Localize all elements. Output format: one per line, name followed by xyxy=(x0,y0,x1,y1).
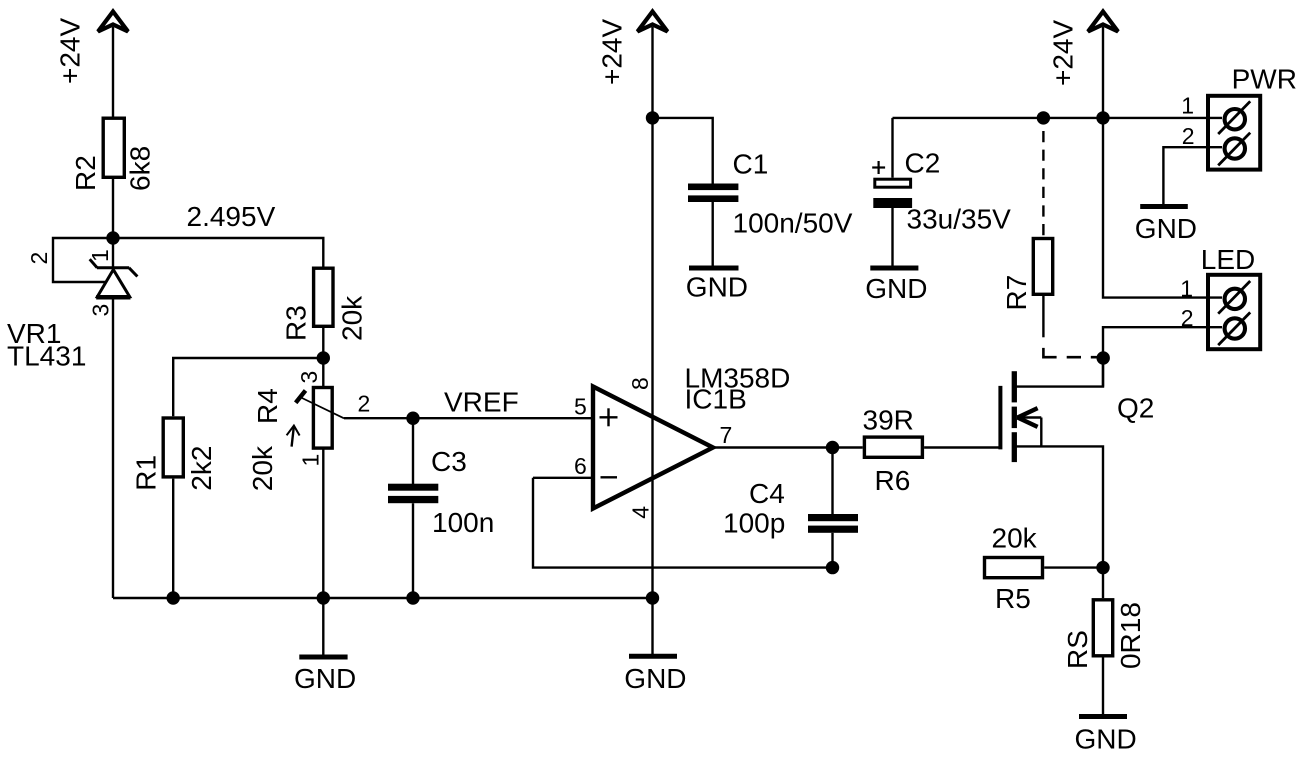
svg-text:100n: 100n xyxy=(432,507,494,538)
junction R4 ground xyxy=(317,591,330,604)
junction VREF xyxy=(406,412,419,425)
svg-text:PWR: PWR xyxy=(1232,64,1297,95)
R4 wiper slash xyxy=(296,391,306,403)
svg-text:20k: 20k xyxy=(992,523,1038,554)
resistor R1 xyxy=(163,418,183,477)
junction node 2.495V xyxy=(106,231,119,244)
potentiometer R4 xyxy=(313,388,332,449)
wire +24V to R2 xyxy=(112,27,114,117)
junction drain / LED2 / R7 xyxy=(1097,351,1110,364)
svg-text:0R18: 0R18 xyxy=(1115,602,1146,669)
svg-text:3: 3 xyxy=(296,371,322,384)
svg-text:+24V: +24V xyxy=(55,18,86,84)
svg-text:Q2: Q2 xyxy=(1117,393,1154,424)
svg-text:R1: R1 xyxy=(130,455,161,491)
wire R7 dashed top xyxy=(1042,131,1044,238)
svg-text:R7: R7 xyxy=(1001,275,1032,311)
junction +24V / C1 xyxy=(646,111,659,124)
svg-text:8: 8 xyxy=(627,377,653,390)
supply symbol +24V (middle) xyxy=(638,12,668,32)
wire R2 to node 2.495V xyxy=(112,179,114,268)
ground rail xyxy=(113,597,653,599)
svg-text:TL431: TL431 xyxy=(7,341,86,372)
svg-text:C2: C2 xyxy=(905,148,941,179)
junction R1 ground xyxy=(167,591,180,604)
svg-text:R2: R2 xyxy=(70,155,101,191)
svg-text:VREF: VREF xyxy=(444,387,519,418)
junction R7 top xyxy=(1037,111,1050,124)
wire R1 to ground rail xyxy=(172,479,174,598)
wire R3 to R4 xyxy=(322,328,324,387)
svg-text:1: 1 xyxy=(1181,93,1194,119)
svg-text:GND: GND xyxy=(294,663,356,694)
svg-text:4: 4 xyxy=(628,506,654,519)
resistor R7 xyxy=(1033,239,1052,295)
resistor R2 xyxy=(103,118,124,177)
resistor RS xyxy=(1093,600,1112,656)
svg-text:3: 3 xyxy=(88,304,114,317)
capacitor C3 xyxy=(388,418,438,598)
wire R7 bottom solid xyxy=(1042,294,1044,337)
svg-text:R5: R5 xyxy=(995,583,1031,614)
svg-text:2: 2 xyxy=(358,391,371,417)
wire op-amp pin6 xyxy=(533,477,593,479)
junction C3 ground xyxy=(406,591,419,604)
wire R6 to Q2 gate xyxy=(924,446,999,448)
ground symbol under R4 xyxy=(294,598,356,694)
svg-text:GND: GND xyxy=(686,272,748,303)
wire LED pin2 to drain node xyxy=(1103,327,1222,386)
svg-text:2k2: 2k2 xyxy=(186,446,217,491)
wire Q2 drain xyxy=(1014,357,1103,387)
svg-text:GND: GND xyxy=(624,663,686,694)
svg-text:R6: R6 xyxy=(875,465,911,496)
ground symbol under C2 xyxy=(865,268,927,304)
wire sense node to RS xyxy=(1102,568,1104,599)
R4 trimmer arrow xyxy=(287,426,300,447)
wire R5 to sense node xyxy=(1044,566,1103,568)
capacitor C2 (polarized) xyxy=(873,118,912,266)
connector LED xyxy=(1208,275,1260,349)
svg-text:39R: 39R xyxy=(863,404,914,435)
svg-text:C4: C4 xyxy=(749,478,785,509)
wire VR1 pin2 loop xyxy=(53,238,113,282)
svg-text:LED: LED xyxy=(1201,244,1255,275)
svg-text:C3: C3 xyxy=(431,446,467,477)
svg-text:6: 6 xyxy=(574,453,587,479)
svg-text:GND: GND xyxy=(865,273,927,304)
capacitor C1 xyxy=(688,184,738,266)
wire Q2 source to sense node xyxy=(1014,446,1103,567)
C2 plus sign xyxy=(872,161,885,174)
R4 wiper line xyxy=(302,398,344,418)
svg-text:2: 2 xyxy=(1182,123,1195,149)
wire R7 dashed bottom to drain node xyxy=(1043,348,1103,357)
svg-text:5: 5 xyxy=(574,394,587,420)
wire feedback pin6 to C4/R5 xyxy=(533,478,833,568)
svg-text:100p: 100p xyxy=(723,507,785,538)
connector PWR xyxy=(1208,96,1260,170)
svg-text:1: 1 xyxy=(298,454,324,467)
wire PWR pin2 to ground xyxy=(1163,147,1222,204)
wire +24V to LED pin1 xyxy=(1103,118,1222,298)
svg-text:R3: R3 xyxy=(281,305,312,341)
ground symbol under RS xyxy=(1075,717,1137,755)
svg-text:R4: R4 xyxy=(252,388,283,424)
supply symbol +24V (left) xyxy=(98,12,128,32)
svg-text:20k: 20k xyxy=(247,445,278,491)
svg-text:IC1B: IC1B xyxy=(685,384,747,415)
resistor R3 xyxy=(314,268,333,326)
op-amp IC1B LM358D xyxy=(593,387,713,509)
svg-text:GND: GND xyxy=(1135,213,1197,244)
junction C4 / feedback xyxy=(826,561,839,574)
wire VREF to op-amp pin5 xyxy=(413,417,593,419)
junction R3/R1/R4 xyxy=(317,351,330,364)
junction op-amp ground xyxy=(646,591,659,604)
svg-text:6k8: 6k8 xyxy=(125,146,156,191)
ground symbol under PWR xyxy=(1135,207,1197,245)
supply symbol +24V (right) xyxy=(1088,12,1118,32)
wire +24V to C1 xyxy=(653,118,713,184)
junction output / C4 xyxy=(826,441,839,454)
capacitor C4 xyxy=(808,448,858,568)
svg-text:GND: GND xyxy=(1075,723,1137,754)
svg-text:33u/35V: 33u/35V xyxy=(907,203,1012,234)
junction +24V / PWR xyxy=(1096,111,1109,124)
ground symbol under C1 xyxy=(686,268,748,303)
shunt regulator VR1 TL431 xyxy=(90,259,138,297)
op-amp plus sign xyxy=(600,408,618,426)
wire +24V top rail C2 to PWR xyxy=(893,117,1223,119)
transistor Q2 (N-MOSFET) xyxy=(1000,371,1041,462)
svg-text:+24V: +24V xyxy=(597,19,628,85)
resistor R5 xyxy=(985,558,1043,578)
op-amp minus sign xyxy=(601,476,618,478)
wire op-amp output pin7 to R6 xyxy=(713,446,863,448)
svg-text:2.495V: 2.495V xyxy=(187,201,276,232)
svg-text:C1: C1 xyxy=(733,149,769,180)
wire R4 wiper to VREF node xyxy=(344,417,413,419)
junction sense node xyxy=(1096,561,1109,574)
wire +24V through op-amp to ground rail xyxy=(651,27,653,598)
wire R1 top to R3 node xyxy=(173,358,323,416)
svg-text:20k: 20k xyxy=(337,295,368,341)
wire +24V arrow to rail xyxy=(1102,27,1104,118)
svg-text:7: 7 xyxy=(720,422,733,448)
svg-text:RS: RS xyxy=(1062,630,1093,669)
wire R4 to ground rail xyxy=(322,448,324,599)
ground symbol under op-amp xyxy=(624,598,686,694)
svg-text:2: 2 xyxy=(26,252,52,265)
wire 2.495V rail to R3 xyxy=(113,238,323,267)
wire RS to ground xyxy=(1102,658,1104,717)
svg-text:100n/50V: 100n/50V xyxy=(733,207,853,238)
resistor R6 xyxy=(864,437,922,457)
wire VR1 anode to ground rail xyxy=(112,298,114,598)
svg-text:+24V: +24V xyxy=(1048,20,1079,86)
